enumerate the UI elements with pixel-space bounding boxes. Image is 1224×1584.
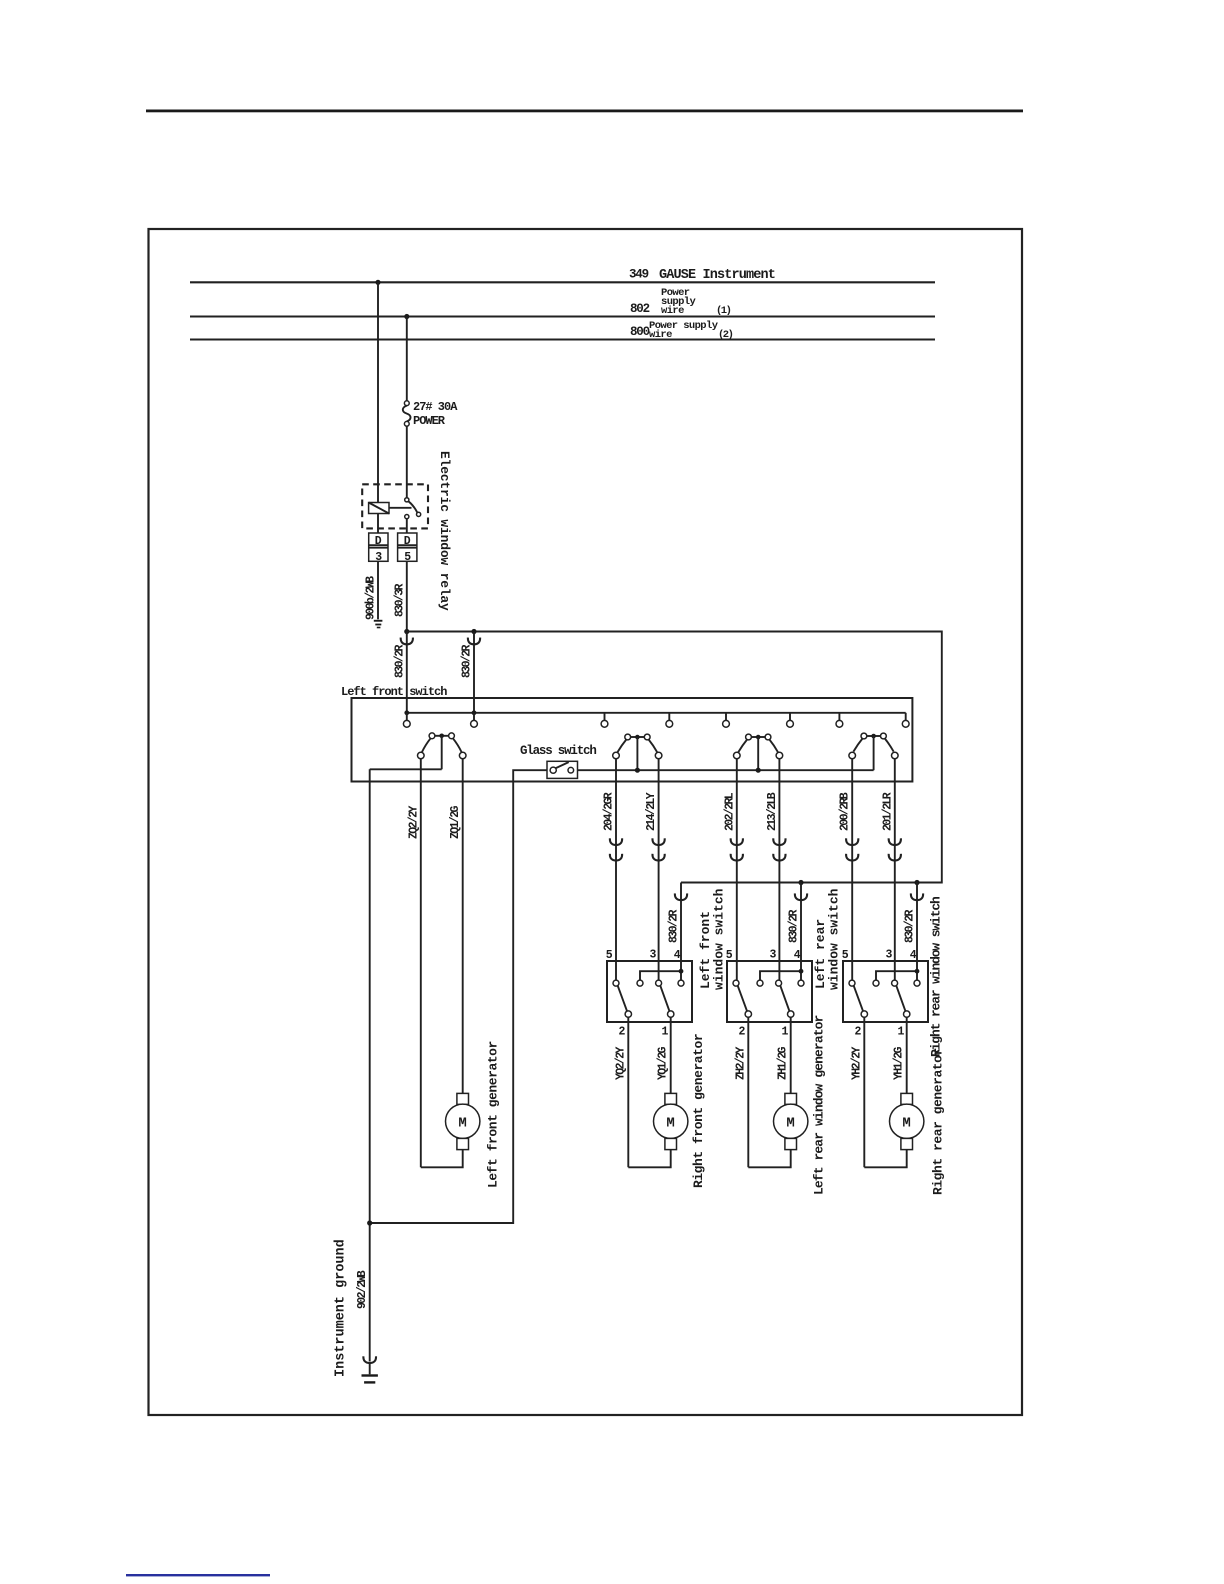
connector D pin 5 — [398, 533, 417, 561]
relay: electric window relay dashed enclosure — [362, 484, 428, 528]
label: pins 2 1 of U4 — [855, 1026, 905, 1039]
svg-text:213/2LB: 213/2LB — [766, 792, 779, 831]
node: distribution junction — [404, 629, 409, 634]
terminal 6 of left front switch — [787, 713, 794, 727]
svg-text:(1): (1) — [716, 305, 731, 317]
wire: bus 802 Power supply wire (1) — [190, 315, 935, 317]
svg-text:D: D — [404, 535, 411, 548]
svg-text:window switch: window switch — [712, 888, 727, 990]
svg-text:POWER: POWER — [413, 414, 446, 428]
wire: ground lead 902/2WB — [369, 1363, 371, 1374]
wire: 830/2R distribution rail to right side — [407, 632, 942, 883]
wire: from bus 802 to fuse — [406, 317, 408, 402]
wire: glass switch to ground rail — [370, 770, 547, 1223]
terminal 1 of left front switch — [403, 713, 410, 727]
wire: switch pin2 to motor loop — [627, 1017, 629, 1167]
svg-text:1: 1 — [782, 1026, 789, 1039]
wire: 830/2R second drop to left front switch — [473, 632, 475, 713]
label: 802 Power supply wire (1) — [630, 287, 731, 317]
wire: motor left return loop — [748, 1150, 790, 1168]
wire: internal supply bus of left front switch — [407, 712, 906, 714]
svg-text:349: 349 — [629, 268, 649, 282]
svg-text:GAUSE Instrument: GAUSE Instrument — [659, 268, 775, 283]
svg-text:204/2GR: 204/2GR — [603, 792, 616, 831]
node: junction at 474 — [471, 629, 476, 634]
connector double hook on 214/2LY — [652, 838, 664, 860]
svg-text:Right rear generator: Right rear generator — [931, 1048, 946, 1195]
svg-text:3: 3 — [886, 949, 893, 962]
svg-text:902/2WB: 902/2WB — [356, 1270, 369, 1309]
wire: motor right return loop — [628, 1150, 670, 1168]
node: junction on ground rail — [367, 1220, 372, 1225]
svg-text:800: 800 — [630, 325, 650, 339]
wire: 200/2RB group4 to right rear window switch pin5 — [851, 759, 853, 980]
label: pins 2 1 of U3 — [739, 1026, 789, 1039]
label: Left rear window switch — [813, 888, 842, 990]
wire: switch pin1 to motor top — [906, 1017, 908, 1093]
wire: ground rail down to instrument ground — [369, 769, 371, 1361]
svg-text:M: M — [902, 1116, 910, 1132]
svg-text:wire: wire — [649, 329, 672, 341]
svg-text:YQ2/2Y: YQ2/2Y — [614, 1046, 627, 1080]
glass switch — [547, 761, 578, 778]
svg-text:ZQ1/2G: ZQ1/2G — [449, 805, 462, 839]
svg-text:5: 5 — [726, 949, 733, 962]
connector hook on pin4 drop 1 — [675, 893, 687, 900]
label: pins 5 3 4 of U2 — [606, 949, 681, 963]
motor left rear window generator M3 — [774, 1093, 808, 1149]
node: junction on bus 802 — [404, 314, 409, 319]
svg-text:(2): (2) — [718, 329, 733, 341]
terminal 3 of left front switch — [601, 713, 608, 727]
label: pins 5 3 4 of U3 — [726, 949, 801, 963]
svg-text:Left front switch: Left front switch — [341, 685, 447, 699]
rocker switch group 4 — [849, 733, 898, 770]
label: 800 Power supply wire (2) — [630, 320, 733, 341]
wire: 830/2R drop to left rear window switch pin4 — [800, 883, 802, 972]
connector double hook on 202/2RL — [731, 838, 743, 860]
rocker switch group 3 — [734, 734, 783, 770]
label: Left front window switch — [698, 888, 727, 990]
connector double hook on 201/2LR — [889, 838, 901, 860]
wire: switch pin1 to motor top — [790, 1017, 792, 1093]
svg-text:window switch: window switch — [827, 888, 842, 990]
svg-text:ZQ2/2Y: ZQ2/2Y — [407, 805, 420, 839]
rocker switch group 1 (left front window) — [418, 733, 467, 769]
svg-text:Right front generator: Right front generator — [691, 1034, 706, 1188]
wire: switch pin2 to motor loop — [747, 1017, 749, 1167]
connector double hook on 213/2LB — [773, 838, 785, 860]
svg-text:830/2R: 830/2R — [461, 644, 474, 678]
fuse 27# 30A POWER — [403, 401, 411, 426]
terminal 2 of left front switch — [471, 713, 478, 727]
label: 349 GAUSE Instrument — [629, 268, 775, 284]
connector hook on second 830/2R drop — [468, 638, 480, 645]
wire: fuse to relay contact — [406, 426, 408, 497]
label: pins 2 1 of U2 — [619, 1026, 669, 1039]
svg-text:3: 3 — [770, 949, 777, 962]
node: 830/2R junction for right rear window switch — [914, 880, 919, 885]
svg-text:YQ1/2G: YQ1/2G — [657, 1046, 670, 1080]
wire: motor left return loop — [421, 1150, 463, 1168]
svg-text:M: M — [786, 1116, 794, 1132]
terminal 8 of left front switch — [902, 713, 909, 727]
connector hook on 830/2R drop — [401, 638, 413, 645]
svg-text:802: 802 — [630, 302, 650, 316]
svg-text:ZH1/2G: ZH1/2G — [777, 1046, 790, 1080]
svg-text:wire: wire — [661, 305, 684, 317]
wire: bus 349 GAUSE Instrument — [190, 281, 935, 283]
svg-text:1: 1 — [898, 1026, 905, 1039]
connector hook on pin4 drop 2 — [795, 893, 807, 900]
wire: relay contact to connector D5 — [406, 519, 408, 533]
svg-text:830/2R: 830/2R — [393, 644, 406, 678]
wire: 214/2LY group2 to left front window switch pin3 — [658, 759, 660, 980]
svg-text:4: 4 — [794, 949, 801, 962]
label: pins 5 3 4 of U4 — [842, 949, 917, 963]
wire: 204/2GR group2 to left front window switch pin5 — [615, 759, 617, 980]
wire: group1 common to ground rail — [370, 768, 442, 770]
svg-text:900b/2WB: 900b/2WB — [365, 576, 378, 620]
svg-text:YH1/2G: YH1/2G — [893, 1046, 906, 1080]
svg-text:830/2R: 830/2R — [788, 909, 801, 943]
svg-text:5: 5 — [606, 949, 613, 962]
svg-text:214/2LY: 214/2LY — [645, 792, 658, 831]
svg-text:5: 5 — [842, 949, 849, 962]
svg-text:Glass switch: Glass switch — [520, 744, 596, 758]
wire: motor right return loop — [864, 1150, 906, 1168]
svg-text:YH2/2Y: YH2/2Y — [850, 1046, 863, 1080]
node: group3 common junction — [756, 768, 761, 773]
svg-text:Electric window relay: Electric window relay — [437, 451, 452, 611]
svg-text:27# 30A: 27# 30A — [413, 400, 458, 414]
wire: 830/2R drop to left front switch pin — [406, 632, 408, 713]
ground: instrument ground symbol — [362, 1374, 378, 1383]
motor right front generator M2 — [654, 1093, 688, 1149]
terminal 7 of left front switch — [836, 713, 843, 727]
svg-text:2: 2 — [739, 1026, 746, 1039]
connector double hook on 200/2RB — [846, 838, 858, 860]
connector hook on pin4 drop 3 — [911, 893, 923, 900]
wire: 830/3R from D5 down to distribution node — [406, 561, 408, 631]
svg-text:2: 2 — [619, 1026, 626, 1039]
left front switch enclosure — [352, 698, 913, 782]
wire: 213/2LB group3 to left rear window switch pin3 — [778, 759, 780, 980]
left front window switch U2 — [607, 961, 692, 1022]
motor right rear generator M4 — [890, 1093, 924, 1149]
wire: switch pin2 to motor loop — [863, 1017, 865, 1167]
svg-text:1: 1 — [662, 1026, 669, 1039]
label: connector D 3 — [375, 535, 383, 564]
wire: relay coil to connector D3 — [377, 514, 379, 534]
svg-text:M: M — [666, 1116, 674, 1132]
svg-text:Left rear window generator: Left rear window generator — [812, 1015, 827, 1195]
wire: ZQ2/2Y group1 to left front generator — [420, 759, 422, 1168]
svg-text:830/3R: 830/3R — [393, 583, 406, 617]
wire: 201/2LR group4 to right rear window switch pin3 — [894, 759, 896, 980]
node: junction on bus 349 — [375, 280, 380, 285]
node: bus junction at 474 — [472, 710, 477, 715]
wire: 202/2RL group3 to left rear window switch pin5 — [736, 759, 738, 980]
terminal 4 of left front switch — [666, 713, 673, 727]
wire: 900b/2WB from bus 349 to relay coil — [377, 282, 379, 502]
rocker switch group 2 — [613, 734, 662, 770]
svg-text:4: 4 — [910, 949, 917, 962]
wire: 830/2R drop to right rear window switch pin4 — [916, 883, 918, 972]
connector double hook on 204/2GR — [610, 838, 622, 860]
relay coil — [369, 503, 412, 514]
svg-text:3: 3 — [650, 949, 657, 962]
relay contact and lever — [405, 498, 421, 519]
wire: glass switch to rocker commons — [578, 769, 874, 771]
node: group2 common junction — [635, 768, 640, 773]
svg-text:ZH2/2Y: ZH2/2Y — [734, 1046, 747, 1080]
svg-text:Left front generator: Left front generator — [486, 1041, 501, 1188]
connector D pin 3 — [369, 533, 388, 561]
wire: D3 to ground — [377, 561, 379, 619]
left rear window switch U3 — [727, 961, 812, 1022]
node: bus junction at 406.8 — [404, 710, 409, 715]
node: 830/2R junction for left rear window switch — [798, 880, 803, 885]
terminal 5 of left front switch — [723, 713, 730, 727]
right rear window switch U4 — [843, 961, 928, 1022]
wire: bus 800 Power supply wire (2) — [190, 338, 935, 340]
svg-text:201/2LR: 201/2LR — [881, 792, 894, 831]
svg-text:830/2R: 830/2R — [904, 909, 917, 943]
connector hook at instrument ground — [363, 1356, 376, 1363]
svg-text:Instrument ground: Instrument ground — [334, 1239, 349, 1377]
svg-text:Right rear window switch: Right rear window switch — [929, 896, 944, 1057]
svg-text:2: 2 — [855, 1026, 862, 1039]
svg-text:202/2RL: 202/2RL — [723, 792, 736, 831]
svg-text:4: 4 — [674, 949, 681, 962]
wire: 830/2R drop to left front window switch pin4 — [680, 883, 682, 972]
wire: switch pin1 to motor top — [670, 1017, 672, 1093]
label: connector D 5 — [404, 535, 412, 564]
motor left front generator M1 — [446, 1093, 480, 1149]
svg-text:830/2R: 830/2R — [668, 909, 681, 943]
label: fuse 27# 30A POWER — [413, 400, 458, 428]
svg-text:D: D — [375, 535, 382, 548]
ground: instrument panel ground — [374, 620, 383, 629]
wire: ZQ1/2G group1 to left front generator — [462, 759, 464, 1094]
svg-text:200/2RB: 200/2RB — [839, 792, 852, 831]
svg-text:M: M — [458, 1116, 466, 1132]
